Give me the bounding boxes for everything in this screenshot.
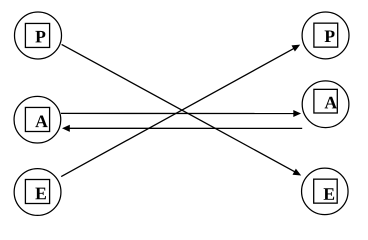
node P right (circle) [302, 12, 349, 59]
node P left (square) [25, 23, 49, 47]
node E left label [35, 188, 46, 200]
wire A right to A left (return) [62, 125, 302, 132]
node P right label [325, 30, 335, 42]
node E right label [324, 188, 335, 200]
node E right (square) [314, 179, 338, 203]
node A left (circle) [14, 96, 61, 143]
node P right (square) [314, 23, 338, 47]
wire A left to A right [61, 110, 301, 117]
node E left (circle) [14, 169, 61, 216]
node A right (square) [314, 89, 337, 113]
node A right (circle) [302, 81, 349, 128]
node A left (square) [25, 107, 49, 131]
node A left label [35, 115, 47, 127]
node E left (square) [25, 180, 49, 204]
node A right label [325, 97, 337, 109]
node E right (circle) [302, 168, 349, 215]
wire E left to P right [61, 45, 300, 177]
wire P left to E right [62, 44, 302, 175]
node P left (circle) [15, 12, 62, 59]
node P left label [35, 31, 45, 43]
